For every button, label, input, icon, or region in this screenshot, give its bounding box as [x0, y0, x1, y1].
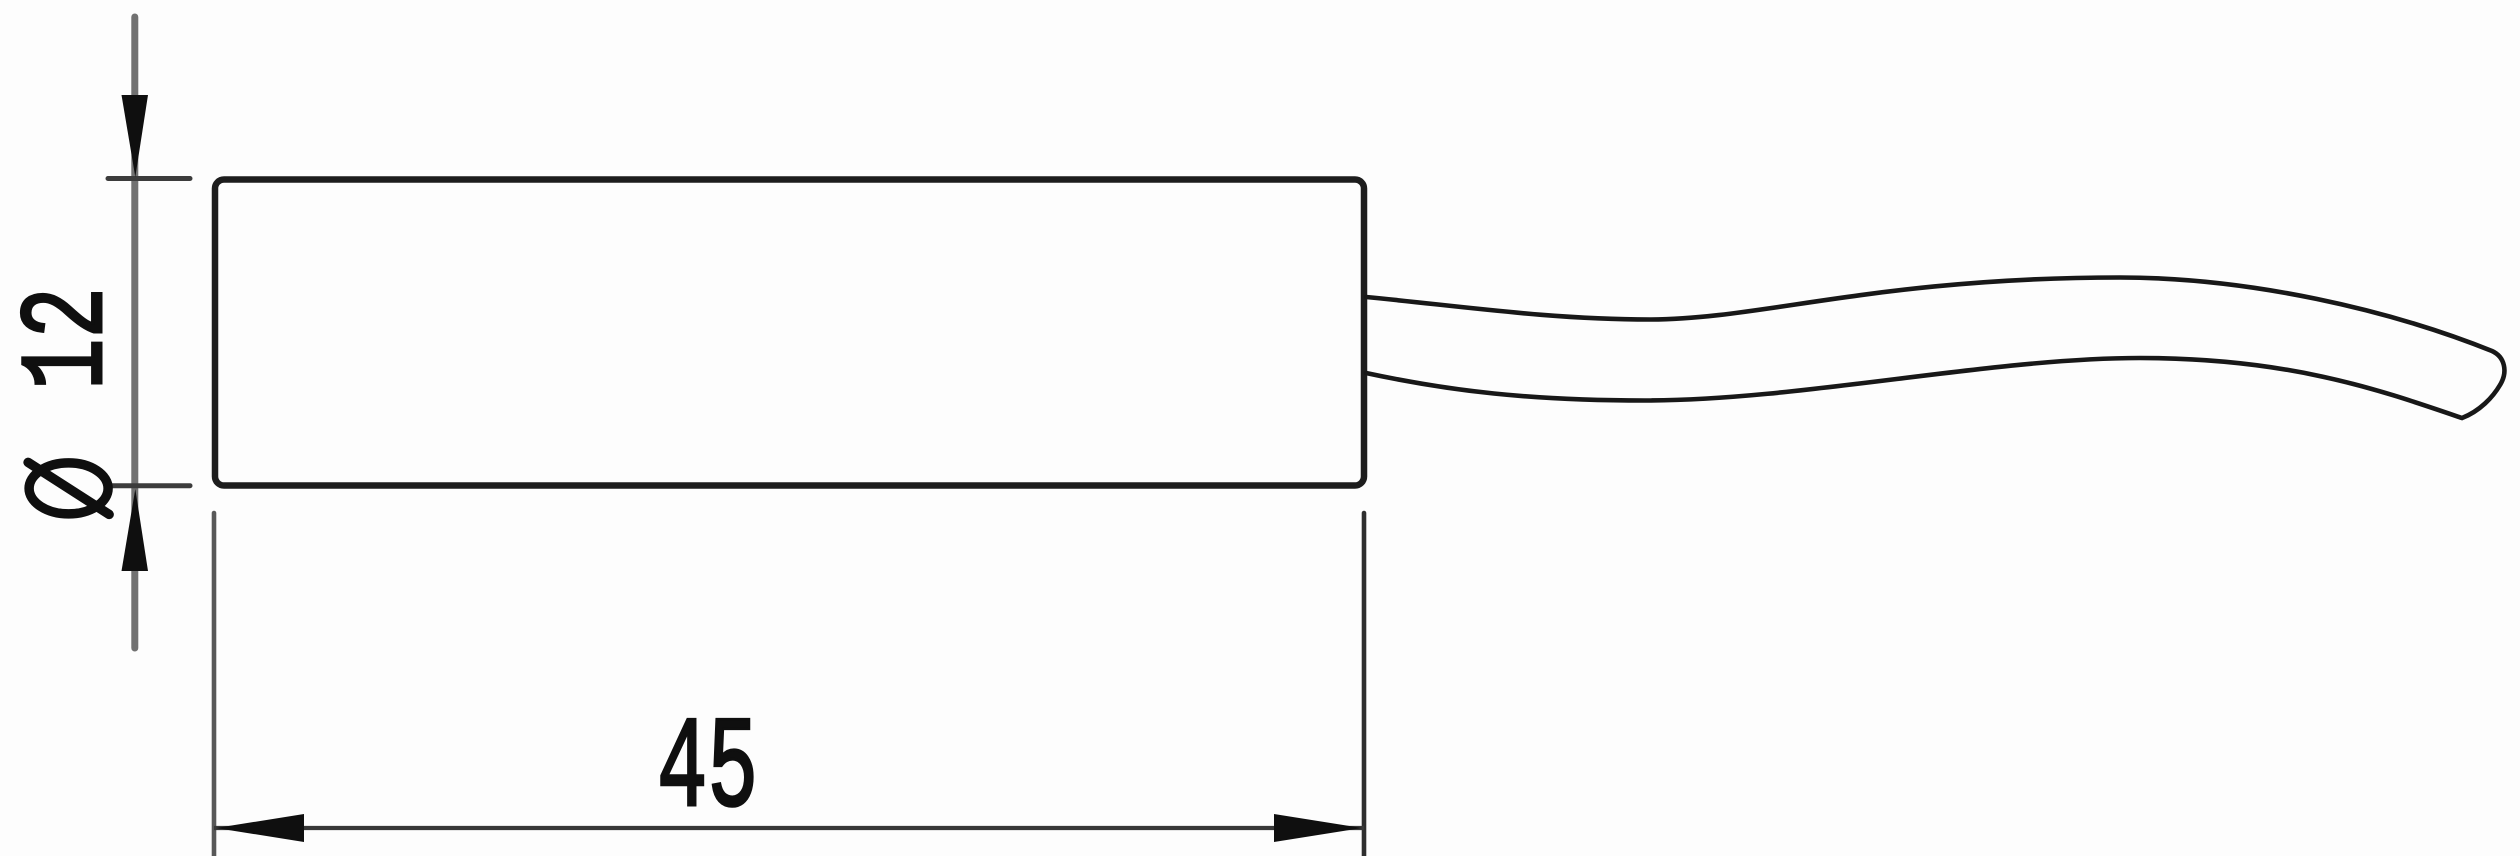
top extension tick [108, 176, 190, 181]
right extension line [1362, 513, 1367, 856]
bottom extension tick [108, 483, 190, 488]
left dimension arrow (points left) [216, 814, 304, 842]
cable [1366, 278, 2504, 419]
module body rectangle [215, 180, 1364, 486]
svg-text:45: 45 [657, 698, 758, 845]
svg-text:12: 12 [2, 287, 137, 390]
horizontal dimension line (length 45) [214, 826, 1364, 830]
left extension line [212, 513, 217, 856]
bottom dimension arrow (points up) [122, 489, 149, 571]
vertical dimension line (diameter) [131, 17, 138, 648]
diameter symbol [28, 462, 109, 514]
right dimension arrow (points right) [1274, 814, 1362, 842]
top dimension arrow (points down) [122, 95, 149, 177]
